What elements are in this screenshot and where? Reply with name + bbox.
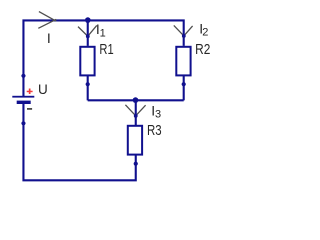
arrow current I3	[125, 105, 145, 118]
node: arrow I2 tip	[182, 34, 186, 38]
wire: left riser + top rail + R2 drop	[23, 20, 183, 96]
arrow current I1	[78, 25, 97, 37]
node: R1 bottom terminal	[86, 82, 90, 86]
wire: R2 down to middle rail	[183, 76, 185, 100]
svg-text:U: U	[38, 82, 48, 97]
battery U: negative plate	[17, 101, 31, 104]
label - (minus sign)	[27, 108, 32, 110]
wire: middle rail	[88, 99, 184, 101]
node: battery top terminal	[21, 74, 25, 78]
svg-text:R1: R1	[99, 41, 113, 58]
node: arrow I3 tip	[134, 114, 138, 118]
arrow current I2	[174, 25, 193, 37]
battery U: positive plate	[12, 96, 34, 98]
node: middle junction	[133, 97, 139, 103]
node: arrow I1 tip	[86, 34, 90, 38]
svg-text:I: I	[47, 30, 51, 46]
label + (plus sign)	[27, 89, 33, 95]
wire: top junction down to R1	[87, 20, 89, 46]
wire: R3 down + bottom rail + battery riser	[23, 104, 135, 180]
wire: middle junction down to R3	[135, 100, 137, 125]
svg-text:1: 1	[100, 27, 106, 39]
svg-text:R3: R3	[147, 121, 162, 138]
resistor R2	[176, 47, 190, 76]
svg-text:3: 3	[155, 109, 161, 121]
node: top junction	[85, 17, 91, 23]
svg-text:2: 2	[202, 26, 208, 38]
node: R2 bottom terminal	[182, 82, 186, 86]
node: battery bottom terminal	[21, 121, 25, 125]
wire: R1 down to middle rail	[87, 76, 89, 100]
resistor R3	[128, 126, 142, 155]
svg-text:R2: R2	[195, 41, 210, 57]
arrow current I	[38, 12, 56, 29]
node: R3 bottom terminal	[134, 162, 138, 166]
resistor R1	[80, 47, 94, 76]
